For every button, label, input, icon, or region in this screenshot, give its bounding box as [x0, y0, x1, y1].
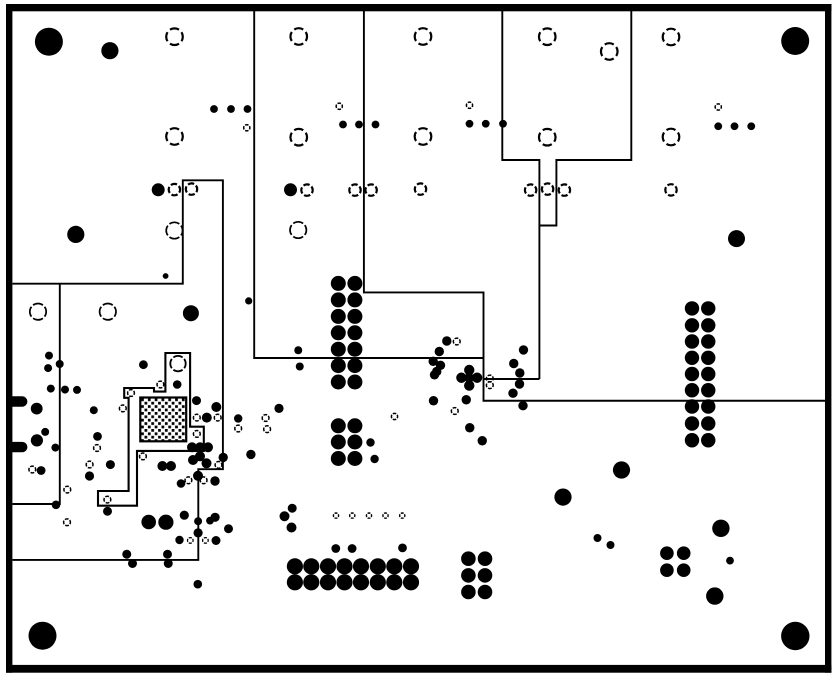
target pad tt1 [244, 125, 250, 131]
large via LV5 [152, 183, 165, 196]
plane island outline U1 [98, 353, 204, 506]
thermal pad TP1 [166, 28, 183, 45]
via v52 [515, 379, 524, 388]
via cluster C1 via 14 [347, 375, 362, 390]
thermal pad TP3 [415, 28, 432, 45]
via v71 [224, 524, 233, 533]
thermal pad TP5 [663, 29, 680, 46]
large via LV10 [158, 515, 173, 530]
thermal pad TP8 [290, 129, 307, 146]
thermal pad tp28 [366, 513, 371, 518]
thermal pad TP12 [166, 222, 182, 238]
thermal pad TP17 [169, 184, 180, 195]
via v33 [211, 402, 221, 412]
via cluster C2 via 2 [701, 301, 715, 315]
via cluster C1 via 18 [347, 435, 362, 450]
thermal pad tp30 [400, 513, 405, 518]
via cluster C2 via 6 [701, 334, 715, 348]
thermal pad TP26 [665, 184, 676, 195]
via v46 [472, 373, 482, 383]
via v1 [163, 273, 169, 279]
via cluster C5 via 2 [677, 546, 691, 560]
via v38 [442, 336, 451, 345]
via v40 [429, 357, 438, 366]
via cluster C3 via 9 [287, 574, 303, 590]
plane split line y379 segment [484, 378, 540, 380]
via v67 [163, 550, 172, 559]
large via LV6 [284, 183, 297, 196]
via v54 [518, 401, 527, 410]
thermal pad TP18 [186, 183, 197, 194]
thermal pad tp14 [453, 338, 460, 345]
via v58 [478, 436, 487, 445]
thermal pad TP9 [415, 128, 432, 145]
via v50 [509, 359, 518, 368]
via v13 [51, 444, 59, 452]
thermal pad tp10 [140, 453, 147, 460]
thermal pad TP20 [349, 184, 360, 195]
thermal pad TP16 (inside island U1) [170, 356, 185, 371]
via top row v12 [747, 122, 755, 130]
thermal pad tp1 [157, 381, 164, 388]
via cluster C3 via 14 [370, 574, 386, 590]
copper stub S1 [12, 396, 22, 406]
via v82 [206, 517, 214, 525]
via cluster C1 via 11 [331, 358, 346, 373]
large via LV4 [183, 305, 199, 321]
via cluster C2 via 18 [701, 433, 715, 447]
thermal pad tp16 [94, 445, 101, 452]
thermal pad tp23 [64, 519, 71, 526]
thermal pad TP22 [415, 183, 426, 194]
mounting hole H1 top-left [35, 28, 63, 56]
via v45 [456, 373, 466, 383]
target pad tt2 [336, 103, 342, 109]
via top row v5 [355, 121, 363, 129]
via cluster C2 via 13 [685, 399, 699, 413]
thermal pad TP4 [539, 28, 556, 45]
via cluster C3 via 4 [336, 558, 352, 574]
via v34 [202, 413, 212, 423]
plane split line net1 (vertical x254 / horizontal y358) [254, 11, 483, 358]
via top row v1 [210, 105, 218, 113]
via v72 [212, 536, 221, 545]
hatched copper pad U1 [140, 398, 186, 442]
plane split line net5 (left region step polygon) [13, 180, 223, 560]
via v4 [44, 364, 52, 372]
via v32 [192, 396, 201, 405]
via cluster C2 via 7 [685, 351, 699, 365]
thermal pad TP24 [542, 183, 553, 194]
via v56 [462, 395, 471, 404]
via top row v6 [372, 121, 380, 129]
via cluster C1 via 1 [331, 276, 346, 291]
mounting hole H2 top-right [781, 27, 809, 55]
thermal pad tp21 [185, 477, 192, 484]
via cluster C2 via 10 [701, 367, 715, 381]
via cluster C1 via 3 [331, 292, 346, 307]
via cluster C1 via 15 [331, 418, 346, 433]
via v11 [41, 428, 49, 436]
via cluster C3 via 11 [320, 574, 336, 590]
via v26 [157, 461, 167, 471]
via cluster C4 via 3 [461, 568, 476, 583]
via v73 [280, 511, 290, 521]
via v6 [47, 385, 55, 393]
thermal pad tp5 [214, 414, 221, 421]
thermal pad TP15 [100, 304, 116, 320]
thermal pad TP19 [301, 184, 312, 195]
via v80 [607, 541, 615, 549]
via v78 [398, 544, 407, 553]
via v31 [173, 380, 182, 389]
via top row v11 [731, 122, 739, 130]
large via LV11 [712, 520, 729, 537]
via v43 [430, 370, 439, 379]
via v25 [193, 471, 203, 481]
via top row v9 [499, 120, 507, 128]
via v20 [203, 442, 213, 452]
via v55 [429, 396, 438, 405]
thermal pad tp29 [383, 513, 388, 518]
thermal pad tp13 [486, 382, 493, 389]
via v64 [175, 536, 183, 544]
via v60 [103, 507, 112, 516]
via cluster C1 via 13 [331, 375, 346, 390]
copper stub S2 [12, 442, 22, 452]
via v37 [274, 404, 283, 413]
via v79 [594, 534, 602, 542]
via v15 [93, 432, 102, 441]
thermal pad tp9 [193, 431, 200, 438]
thermal pad TP13 [290, 222, 306, 238]
via v7 [61, 386, 69, 394]
thermal pad tp3 [119, 405, 126, 412]
via v19 [195, 442, 205, 452]
thermal pad tp15 [29, 466, 36, 473]
thermal pad tp27 [350, 513, 355, 518]
via v2 [245, 297, 252, 304]
via v65 [122, 550, 131, 559]
via cluster C3 via 12 [336, 574, 352, 590]
via cluster C4 via 5 [461, 585, 476, 600]
thermal pad tp4 [193, 414, 200, 421]
via cluster C1 via 10 [347, 342, 362, 357]
via v23 [202, 458, 212, 468]
via small c1a [366, 438, 374, 446]
thermal pad tp7 [262, 415, 269, 422]
plane split line net4 (x631 down, notch to x539) [539, 11, 631, 226]
via v68 [164, 559, 173, 568]
via cluster C2 via 1 [685, 301, 699, 315]
via v70 [211, 513, 220, 522]
via cluster C2 via 3 [685, 318, 699, 332]
via cluster C3 via 8 [403, 558, 419, 574]
via v42 [432, 367, 441, 376]
mounting hole H3 bottom-left [29, 622, 57, 650]
via v35 [246, 450, 255, 459]
via v75 [287, 523, 297, 533]
via v41 [436, 361, 445, 370]
via small c1d [296, 363, 304, 371]
via top row v7 [466, 120, 474, 128]
via top row v2 [227, 105, 235, 113]
large via LV1 [101, 42, 118, 59]
thermal pad tp27b [203, 538, 209, 544]
via cluster C1 via 16 [347, 418, 362, 433]
via v36 [234, 414, 242, 422]
via v49 [519, 345, 528, 354]
via cluster C1 via 12 [347, 358, 362, 373]
thermal pad tp20 [215, 462, 222, 469]
via v61 [180, 511, 189, 520]
plane split line net2 (x364 down, y292 right, x483 down, y401 right) [364, 11, 825, 401]
via v12 [31, 434, 43, 446]
via v47 [464, 380, 474, 390]
via v63 [194, 528, 203, 537]
via v16 [106, 460, 115, 469]
large via LV8 [554, 489, 571, 506]
via v29 [177, 479, 186, 488]
large via LV7 [613, 461, 630, 478]
thermal pad tp17 [86, 461, 93, 468]
via v24 [219, 453, 228, 462]
via cluster C3 via 5 [353, 558, 369, 574]
via cluster C4 via 6 [478, 585, 493, 600]
thermal pad tp18 [64, 486, 71, 493]
via cluster C3 via 7 [386, 558, 402, 574]
thermal pad tp2 [128, 390, 135, 397]
via cluster C2 via 17 [685, 433, 699, 447]
via v77 [348, 544, 357, 553]
thermal pad TP11 [663, 129, 680, 146]
via v14 [37, 466, 46, 475]
via cluster C2 via 8 [701, 351, 715, 365]
via v81 [726, 557, 734, 565]
via v18 [187, 442, 197, 452]
via cluster C3 via 16 [403, 574, 419, 590]
via small c1c [294, 346, 302, 354]
via top row v4 [339, 121, 347, 129]
via cluster C2 via 4 [701, 318, 715, 332]
via cluster C4 via 1 [461, 551, 476, 566]
via top row v10 [714, 122, 722, 130]
thermal pad tp26b [188, 538, 194, 544]
thermal pad TP25 [559, 184, 570, 195]
target pad tt3 [466, 102, 472, 108]
via v17 [85, 471, 94, 480]
via v44 [464, 365, 474, 375]
large via LV9 [141, 515, 156, 530]
thermal pad TP6 [601, 43, 618, 60]
via cluster C2 via 11 [685, 383, 699, 397]
target pad tt5 [391, 413, 397, 419]
via v48 [464, 373, 474, 383]
via v27 [166, 461, 176, 471]
via v51 [515, 368, 524, 377]
via cluster C2 via 9 [685, 367, 699, 381]
via v3 [45, 352, 53, 360]
via v9 [90, 406, 98, 414]
thermal pad TP7 [166, 128, 183, 145]
via cluster C1 via 4 [347, 292, 362, 307]
large via LV3 [728, 230, 745, 247]
thermal pad TP14 [30, 304, 46, 320]
via v66 [128, 559, 137, 568]
via small c1b [370, 455, 378, 463]
thermal pad tp19 [104, 496, 111, 503]
via cluster C4 via 2 [478, 551, 493, 566]
via cluster C1 via 5 [331, 309, 346, 324]
via v21 [195, 451, 205, 461]
mounting hole H4 bottom-right [781, 622, 809, 650]
via cluster C3 via 15 [386, 574, 402, 590]
via cluster C3 via 2 [303, 558, 319, 574]
via cluster C2 via 15 [685, 416, 699, 430]
via v39 [435, 347, 444, 356]
via cluster C3 via 13 [353, 574, 369, 590]
thermal pad TP2 [290, 28, 307, 45]
thermal pad tp8 [264, 426, 271, 433]
plane split line net6 (x60 down to y504 left) [13, 284, 60, 504]
via v30 [139, 360, 148, 369]
via top row v8 [482, 120, 490, 128]
via cluster C1 via 19 [331, 451, 346, 466]
via cluster C1 via 9 [331, 342, 346, 357]
via v69 [194, 580, 203, 589]
thermal pad TP23 [525, 184, 536, 195]
thermal pad tp11 [451, 408, 458, 415]
via v22 [188, 455, 198, 465]
plane split line net3 (x502 down, y160, x539 down) [502, 11, 539, 379]
via v59 [52, 501, 61, 510]
via v28 [210, 476, 219, 485]
thermal pad TP21 [365, 184, 376, 195]
via cluster C1 via 8 [347, 325, 362, 340]
via cluster C5 via 1 [660, 546, 674, 560]
via cluster C5 via 4 [677, 563, 691, 577]
via top row v3 [244, 105, 252, 113]
via v53 [508, 389, 517, 398]
thermal pad tp6 [235, 425, 242, 432]
large via LV2 [67, 226, 84, 243]
via cluster C1 via 17 [331, 435, 346, 450]
via v74 [288, 504, 297, 513]
via v5 [56, 360, 64, 368]
via v8 [73, 386, 81, 394]
thermal pad tp22 [200, 477, 207, 484]
via cluster C3 via 1 [287, 558, 303, 574]
via cluster C3 via 10 [303, 574, 319, 590]
via cluster C4 via 4 [478, 568, 493, 583]
via cluster C1 via 6 [347, 309, 362, 324]
via v76 [331, 544, 340, 553]
thermal pad TP10 [539, 129, 556, 146]
thermal pad tp12 [486, 375, 493, 382]
large via LV12 [706, 587, 723, 604]
via cluster C1 via 20 [347, 451, 362, 466]
via cluster C2 via 5 [685, 334, 699, 348]
via cluster C1 via 7 [331, 325, 346, 340]
via cluster C2 via 12 [701, 383, 715, 397]
via v57 [465, 423, 474, 432]
via v62 [194, 517, 202, 525]
via cluster C3 via 6 [370, 558, 386, 574]
thermal pad tp26 [333, 513, 338, 518]
via cluster C5 via 3 [660, 563, 674, 577]
via cluster C2 via 16 [701, 416, 715, 430]
via v10 [31, 403, 43, 415]
via cluster C2 via 14 [701, 399, 715, 413]
via cluster C3 via 3 [320, 558, 336, 574]
target pad tt4 [715, 104, 721, 110]
via cluster C1 via 2 [347, 276, 362, 291]
